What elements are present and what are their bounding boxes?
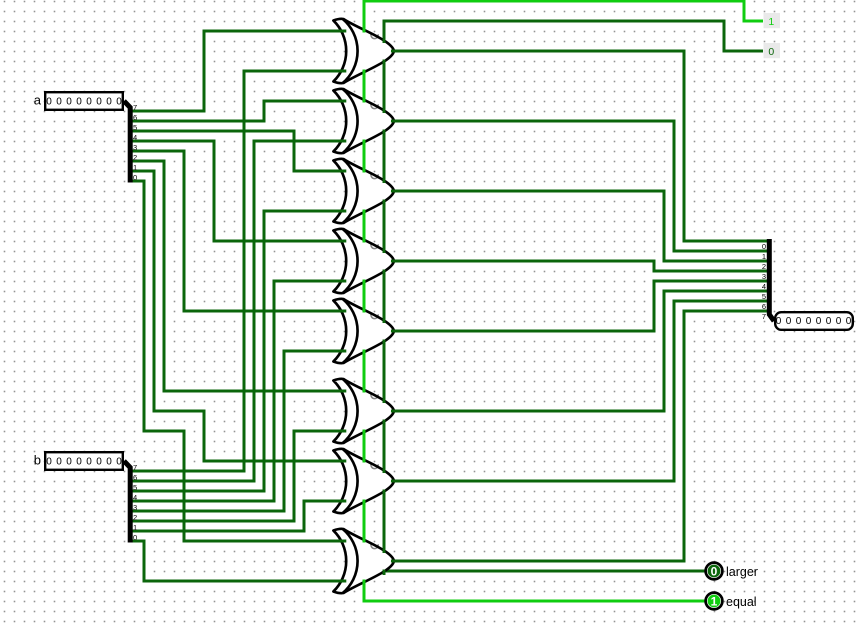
- svg-text:0: 0: [86, 97, 92, 108]
- splitter a (1 to 8 fanout): [124, 101, 137, 183]
- constant 1: [764, 13, 781, 28]
- svg-text:4: 4: [133, 133, 137, 142]
- svg-text:6: 6: [133, 473, 137, 482]
- wire b1 (splitter b pin1 to U7 input B): [131, 501, 344, 531]
- wire b3 (splitter b pin3 to U5 input B): [131, 351, 344, 511]
- wire b2 (splitter b pin2 to U6 input B): [131, 431, 344, 521]
- output pin larger (1-bit, value 0): [706, 563, 723, 580]
- wire b6 (splitter b pin6 to U2 input B): [131, 141, 344, 481]
- svg-text:3: 3: [133, 143, 137, 152]
- svg-text:0: 0: [46, 457, 52, 468]
- wire a5 (splitter a pin5 to U3 input A): [131, 131, 344, 171]
- output splitter bar: [769, 239, 774, 321]
- wire b4 (splitter b pin4 to U4 input B): [131, 281, 344, 501]
- splitter a bar: [124, 101, 130, 183]
- svg-text:0: 0: [116, 457, 122, 468]
- splitter b bar: [124, 461, 130, 543]
- svg-text:1: 1: [133, 523, 137, 532]
- svg-text:0: 0: [76, 457, 82, 468]
- svg-text:2: 2: [133, 513, 137, 522]
- wire a6 (splitter a pin6 to U2 input A): [131, 101, 344, 121]
- svg-text:a: a: [34, 93, 42, 108]
- XOR gate U3 (inputs at y=171,211; output at (394,191)): [333, 159, 394, 223]
- wire U3 output to output splitter pin2: [394, 191, 768, 261]
- wire a2 (splitter a pin2 to U6 input A): [131, 161, 344, 391]
- svg-text:0: 0: [786, 316, 792, 327]
- XOR gate U1 (inputs at y=31,71; output at (394,51)): [333, 19, 394, 83]
- svg-text:larger: larger: [726, 565, 758, 579]
- wire a7 (splitter a pin7 to U1 input A): [131, 31, 344, 111]
- svg-text:1: 1: [133, 163, 137, 172]
- svg-text:0: 0: [836, 316, 842, 327]
- svg-text:equal: equal: [726, 595, 757, 609]
- svg-text:7: 7: [762, 312, 766, 321]
- svg-text:5: 5: [133, 483, 137, 492]
- wire a0 (splitter a pin0 to U8 input A): [131, 181, 344, 541]
- svg-text:2: 2: [133, 153, 137, 162]
- svg-text:0: 0: [133, 173, 137, 182]
- svg-text:4: 4: [762, 282, 766, 291]
- wire b5 (splitter b pin5 to U3 input B): [131, 211, 344, 491]
- svg-text:0: 0: [56, 97, 62, 108]
- svg-text:6: 6: [133, 113, 137, 122]
- output pin box: [775, 312, 853, 330]
- pin b value digits 00000000: [46, 457, 122, 468]
- wire b0 (splitter b pin0 to U8 input B): [131, 541, 344, 581]
- svg-text:0: 0: [133, 533, 137, 542]
- splitter b pin number labels 7..0: [133, 463, 137, 542]
- svg-text:0: 0: [96, 457, 102, 468]
- pin a value digits 00000000: [46, 97, 122, 108]
- XOR gate U4 (inputs at y=241,281; output at (394,261)): [333, 229, 394, 293]
- svg-text:1: 1: [711, 594, 718, 608]
- svg-text:0: 0: [66, 457, 72, 468]
- wire a1 (splitter a pin1 to U7 input A): [131, 171, 344, 461]
- wire U1 output to output splitter pin0: [394, 51, 768, 241]
- svg-text:1: 1: [762, 252, 766, 261]
- svg-text:7: 7: [133, 103, 137, 112]
- splitter b (1 to 8 fanout): [124, 461, 137, 543]
- svg-text:0: 0: [806, 316, 812, 327]
- XOR gate U6 (inputs at y=391,431; output at (394,411)): [333, 379, 394, 443]
- svg-text:0: 0: [116, 97, 122, 108]
- wire a4 (splitter a pin4 to U4 input A): [131, 141, 344, 241]
- svg-text:0: 0: [106, 457, 112, 468]
- output pin result (8-bit): [775, 312, 853, 330]
- output pin value digits 00000000: [776, 316, 852, 327]
- input pin a (8-bit): [34, 92, 123, 110]
- svg-text:0: 0: [96, 97, 102, 108]
- wire U7 output to output splitter pin6: [394, 301, 768, 481]
- XOR gate U8 (inputs at y=541,581; output at (394,561)): [333, 529, 394, 593]
- svg-text:0: 0: [776, 316, 782, 327]
- svg-text:3: 3: [762, 272, 766, 281]
- bright wire stubs visible over gate outlines: [363, 27, 366, 585]
- wire U8 output to output splitter pin7: [394, 311, 768, 561]
- wire net-0 from constant 0 to pin larger: [384, 21, 763, 571]
- wire U2 output to output splitter pin1: [394, 121, 768, 251]
- wire a3 (splitter a pin3 to U5 input A): [131, 151, 344, 311]
- svg-text:0: 0: [86, 457, 92, 468]
- pin a box: [45, 92, 123, 110]
- input pin b (8-bit): [34, 452, 123, 470]
- svg-text:0: 0: [66, 97, 72, 108]
- svg-text:7: 7: [133, 463, 137, 472]
- svg-text:0: 0: [762, 242, 766, 251]
- svg-text:5: 5: [133, 123, 137, 132]
- output splitter pin number labels 0..7: [762, 242, 766, 321]
- wire b7 (splitter b pin7 to U1 input B): [131, 71, 344, 471]
- output pin equal (1-bit, value 1): [706, 593, 723, 610]
- svg-text:0: 0: [46, 97, 52, 108]
- wire U4 output to output splitter pin3: [394, 261, 768, 271]
- svg-text:b: b: [34, 453, 41, 468]
- pin b box: [45, 452, 123, 470]
- svg-text:3: 3: [133, 503, 137, 512]
- svg-text:0: 0: [56, 457, 62, 468]
- svg-text:0: 0: [76, 97, 82, 108]
- output splitter (8 to 1 merge): [762, 239, 774, 321]
- svg-text:0: 0: [846, 316, 852, 327]
- svg-text:0: 0: [106, 97, 112, 108]
- svg-text:5: 5: [762, 292, 766, 301]
- XOR gate U7 (inputs at y=461,501; output at (394,481)): [333, 449, 394, 513]
- wire net-1 from constant 1 to pin equal: [364, 1, 763, 601]
- svg-text:1: 1: [768, 16, 774, 28]
- dark wire stubs visible over gate outlines: [336, 31, 398, 581]
- wire U5 output to output splitter pin4: [394, 281, 768, 331]
- splitter a pin number labels 7..0: [133, 103, 137, 182]
- XOR gate U2 (inputs at y=101,141; output at (394,121)): [333, 89, 394, 153]
- svg-text:4: 4: [133, 493, 137, 502]
- svg-text:2: 2: [762, 262, 766, 271]
- svg-text:0: 0: [796, 316, 802, 327]
- constant 0: [764, 43, 781, 58]
- svg-text:0: 0: [768, 46, 774, 58]
- svg-text:0: 0: [816, 316, 822, 327]
- XOR gate U5 (inputs at y=311,351; output at (394,331)): [333, 299, 394, 363]
- wire U6 output to output splitter pin5: [394, 291, 768, 411]
- svg-text:0: 0: [826, 316, 832, 327]
- svg-text:6: 6: [762, 302, 766, 311]
- svg-text:0: 0: [711, 564, 718, 578]
